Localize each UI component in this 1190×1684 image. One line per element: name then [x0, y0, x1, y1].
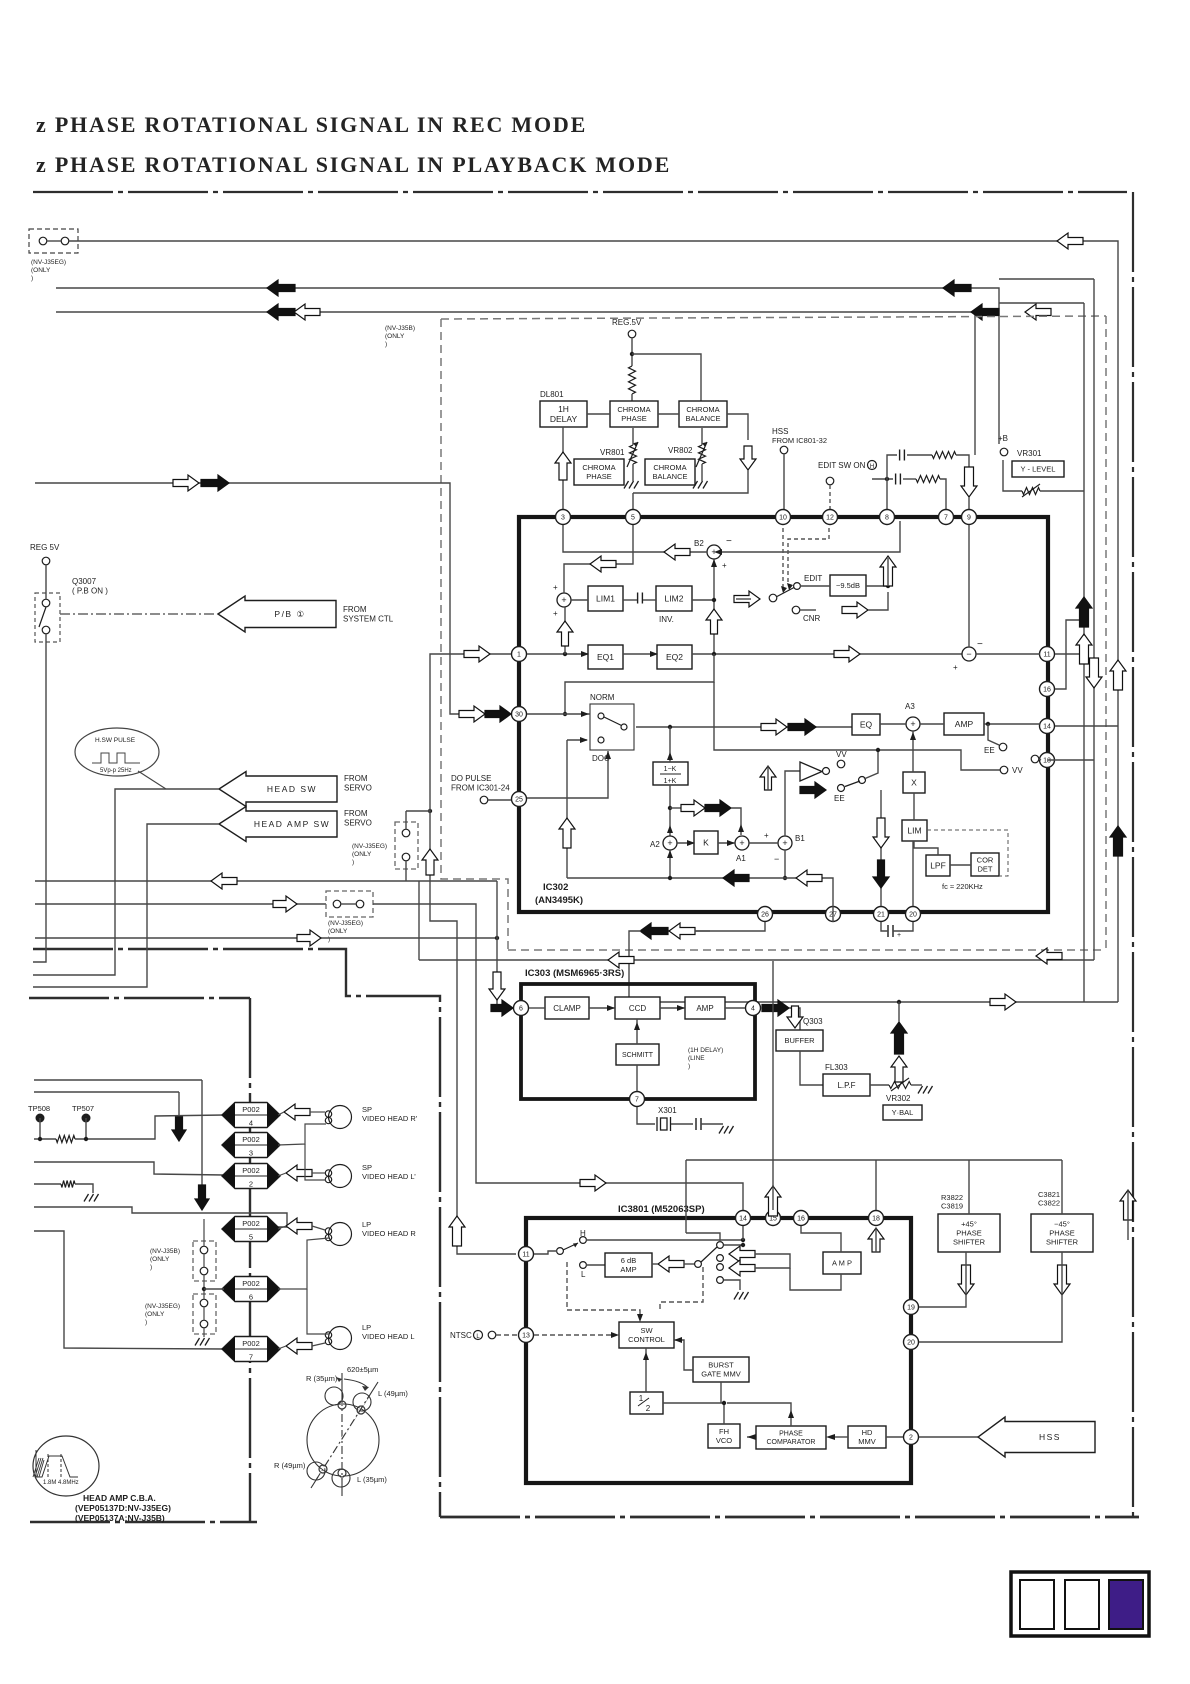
svg-text:PHASE: PHASE: [586, 472, 611, 481]
legend square 2: [1065, 1580, 1099, 1629]
stub y1184 left w resistor: [34, 1183, 61, 1185]
svg-text:( P.B ON ): ( P.B ON ): [72, 587, 108, 596]
open arrow down from +45: [958, 1265, 974, 1295]
svg-text:CONTROL: CONTROL: [628, 1335, 665, 1344]
wire between contacts: [47, 240, 61, 242]
svg-text:CHROMA: CHROMA: [653, 463, 686, 472]
wire amp3801 up to pin16: [801, 1226, 841, 1252]
svg-text:TP508: TP508: [28, 1104, 50, 1113]
svg-text:L (49µm): L (49µm): [378, 1389, 408, 1398]
open arrow up at VR302: [891, 1056, 907, 1082]
svg-text:12: 12: [826, 515, 834, 522]
open arrow left y960: [608, 952, 634, 968]
switch contact: [557, 1248, 564, 1255]
svg-text:2: 2: [909, 1435, 913, 1442]
svg-text:+: +: [553, 609, 558, 618]
svg-text:PHASE: PHASE: [621, 414, 646, 423]
svg-text:13: 13: [522, 1333, 530, 1340]
wire EQ2-out down to pin30 row: [565, 654, 714, 714]
svg-text:1−K: 1−K: [664, 766, 677, 773]
wire cap-res loop2: [903, 478, 916, 480]
capacitor at X301: [696, 1118, 701, 1130]
junction: [876, 748, 880, 752]
block -9.5dB: [830, 575, 866, 596]
svg-text:1H: 1H: [558, 404, 569, 414]
wire CNR arrow: [800, 609, 816, 611]
capacitor at pin20 bottom: [888, 925, 893, 937]
legend square 3 (filled purple): [1109, 1580, 1143, 1629]
junction loop: [885, 477, 889, 481]
svg-text:(ONLY: (ONLY: [31, 267, 51, 274]
wire after inline connector: [341, 903, 356, 905]
svg-text:DL801: DL801: [540, 390, 564, 399]
dashed region bottom: [508, 949, 1106, 951]
pin 2: [904, 1430, 919, 1445]
wire P002-6 left: [204, 1288, 224, 1290]
wire DL801-chromaphase: [587, 413, 610, 415]
svg-text:14: 14: [739, 1216, 747, 1223]
svg-text:BURST: BURST: [708, 1361, 734, 1370]
long wire y881: [35, 880, 497, 882]
wire top line 3: [56, 312, 975, 455]
svg-text:BALANCE: BALANCE: [652, 472, 687, 481]
svg-text:K: K: [703, 838, 709, 848]
+B contact: [1000, 448, 1008, 456]
wire amp out: [652, 1263, 658, 1265]
svg-text:SW: SW: [640, 1326, 653, 1335]
NV-J35EG inline dashed box: [326, 891, 373, 917]
wire burst gate down to node: [720, 1382, 722, 1403]
svg-text:−9.5dB: −9.5dB: [836, 581, 860, 590]
wire norm junction to fraction: [669, 727, 671, 762]
pin 13: [1040, 753, 1055, 768]
ground VR302: [918, 1086, 933, 1094]
signal arrow P/B from system ctl: [218, 596, 336, 632]
wire x773 vertical from y960: [772, 961, 774, 1186]
svg-text:): ): [688, 1063, 690, 1070]
NV-J35EG ONLY dashed box left col 2: [193, 1294, 216, 1334]
long wire left y1092: [34, 1091, 179, 1093]
wire arrow to pin9: [968, 497, 970, 509]
crystal X301: [657, 1117, 671, 1131]
wire to pin13: [1039, 759, 1041, 760]
NTSC circle L: [474, 1331, 483, 1340]
wire pin26 line corner down x629: [629, 931, 641, 1002]
svg-text:620±5µm: 620±5µm: [347, 1365, 378, 1374]
head amp region border right (dash-dot): [249, 998, 251, 1522]
wire right bundle connector y1002: [629, 1001, 1118, 1003]
summing node B2: [707, 545, 721, 559]
svg-text:P002: P002: [242, 1135, 260, 1144]
feedback RC loop upper: [887, 455, 897, 471]
svg-text:EE: EE: [834, 794, 845, 803]
wire selector bottom to ground: [724, 1280, 740, 1290]
EDIT SW contact: [826, 477, 834, 485]
open arrow right from CNR: [842, 602, 868, 618]
open arrow right y904: [273, 896, 297, 912]
open arrow left y881: [211, 873, 237, 889]
dashed wire EDIT SW to pin12: [829, 485, 831, 509]
open arrow up far right lower: [1120, 1190, 1136, 1220]
summing node input: [557, 593, 571, 607]
wire buffer down to LPF: [800, 1051, 823, 1085]
wire loop2 right down to pin7: [940, 479, 946, 509]
svg-text:NTSC: NTSC: [450, 1331, 472, 1340]
svg-text:8: 8: [885, 515, 889, 522]
label box Y-BAL: [883, 1105, 922, 1120]
svg-text:SERVO: SERVO: [344, 784, 372, 793]
svg-text:EDIT SW ON: EDIT SW ON: [818, 461, 866, 470]
wire B2 right to pin7 col: [721, 521, 900, 552]
svg-text:A3: A3: [905, 702, 915, 711]
black arrow right above K: [705, 800, 731, 816]
H.SW PULSE balloon: [75, 728, 159, 776]
block 6dB AMP: [605, 1253, 652, 1277]
wire X-LIM: [913, 793, 915, 820]
svg-text:FROM: FROM: [344, 809, 368, 818]
pin 26: [758, 907, 773, 922]
black arrow down x202: [195, 1185, 209, 1210]
wire cap-res loop1: [907, 454, 932, 456]
block COR DET: [971, 853, 999, 876]
block -45deg phase shifter: [1031, 1214, 1093, 1252]
black arrow down x179: [172, 1116, 186, 1141]
pin 16: [794, 1211, 809, 1226]
svg-text:SP: SP: [362, 1163, 372, 1172]
wire pin21 col up: [880, 790, 882, 906]
wire AMP to pin14: [984, 723, 1040, 725]
resistor loop2: [916, 476, 940, 483]
EE contact right side: [999, 743, 1007, 751]
pin 16: [1040, 682, 1055, 697]
wire x686 join selector row: [686, 1233, 720, 1240]
black arrow down to pin21: [873, 860, 889, 888]
wire top line 1: [69, 241, 1118, 1002]
connector (NV-J35EG only) dashed box top-left: [29, 229, 78, 253]
NV-J35EG dashed box mid: [395, 822, 418, 869]
svg-text:18: 18: [872, 1216, 880, 1223]
open arrow up to LIM2 line: [706, 609, 722, 634]
resistor loop1: [932, 452, 956, 459]
svg-text:14: 14: [1043, 724, 1051, 731]
wire EQ1-EQ2: [623, 653, 657, 655]
VR801 variable resistor: [630, 445, 637, 464]
svg-text:Y - LEVEL: Y - LEVEL: [1021, 465, 1056, 474]
svg-text:COMPARATOR: COMPARATOR: [766, 1439, 815, 1446]
block CCD: [615, 997, 660, 1019]
svg-text:SP: SP: [362, 1105, 372, 1114]
VR302 variable resistor: [889, 1082, 911, 1089]
black arrow up on v3: [1110, 826, 1126, 856]
svg-text:SCHMITT: SCHMITT: [622, 1052, 654, 1059]
svg-text:DELAY: DELAY: [550, 414, 578, 424]
dash-dot wire P/B to Q3007: [60, 613, 218, 615]
svg-text:L: L: [581, 1270, 586, 1279]
black arrow left below IC302: [640, 923, 668, 939]
wire arrow to selector common: [684, 1263, 698, 1265]
wire to chroma phase box: [631, 394, 633, 401]
wire thru nv-j35eg box: [405, 811, 407, 829]
wire sw control down to half divider: [645, 1348, 647, 1392]
wire pin20 up to LIM: [912, 841, 914, 906]
arrowhead into B2 from right: [714, 549, 722, 555]
open arrow left above sum: [590, 556, 616, 572]
svg-text:VR802: VR802: [668, 446, 693, 455]
block K: [694, 831, 718, 854]
svg-text:16: 16: [1043, 687, 1051, 694]
wire +45 shifter up: [968, 1160, 970, 1214]
open arrow up above pin15: [765, 1186, 781, 1216]
wire head amp sw to vertical x152: [33, 824, 219, 987]
wire DOC contact to left col: [567, 739, 587, 741]
open arrow left on line 3 right2: [1025, 304, 1051, 320]
svg-text:VR302: VR302: [886, 1094, 911, 1103]
svg-text:5: 5: [631, 515, 635, 522]
contact: [356, 900, 364, 908]
open arrow right y938: [297, 930, 321, 946]
pin 25: [512, 792, 527, 807]
NV-J35B ONLY dashed box left col: [193, 1241, 216, 1281]
wire A3-AMP: [920, 723, 944, 725]
junction: [886, 584, 890, 588]
open arrow right on EQ output line: [834, 646, 860, 662]
svg-text:L.P.F: L.P.F: [837, 1081, 855, 1090]
contact: [61, 237, 69, 245]
open arrow left at B2: [664, 544, 690, 560]
svg-text:25: 25: [515, 797, 523, 804]
junction x497 y938: [495, 936, 499, 940]
pin 30: [512, 707, 527, 722]
wire x419 from y881 down: [418, 881, 420, 960]
svg-text:+45°: +45°: [961, 1220, 977, 1229]
svg-text:): ): [31, 275, 33, 282]
svg-text:P002: P002: [242, 1166, 260, 1175]
hatch area: [33, 1458, 44, 1477]
contact: [39, 237, 47, 245]
svg-text:+: +: [897, 932, 901, 939]
svg-text:(ONLY: (ONLY: [352, 851, 372, 858]
svg-text:H.SW PULSE: H.SW PULSE: [95, 737, 136, 744]
svg-text:(VEP05137D:NV-J35EG): (VEP05137D:NV-J35EG): [75, 1503, 171, 1513]
junction: [668, 725, 672, 729]
ground VR802: [693, 481, 708, 489]
svg-text:+: +: [910, 719, 915, 729]
open arrow left P002-7: [286, 1338, 312, 1354]
wire pin18 inner stub: [875, 1228, 877, 1252]
svg-text:VV: VV: [1012, 766, 1023, 775]
svg-text:MMV: MMV: [858, 1437, 876, 1446]
svg-text:CCD: CCD: [629, 1004, 647, 1013]
wire y904 to x476 down to y1183: [373, 904, 743, 1210]
svg-text:): ): [328, 936, 330, 943]
block FH VCO: [708, 1424, 740, 1448]
svg-text:(VEP05137A:NV-J35B): (VEP05137A:NV-J35B): [75, 1513, 165, 1523]
open arrow right into pin1: [464, 646, 490, 662]
open arrow left lower: [796, 870, 822, 886]
ground left y1184: [84, 1194, 99, 1202]
svg-text:P002: P002: [242, 1279, 260, 1288]
contact before pin13: [1031, 755, 1039, 763]
wire right top h to v2: [999, 278, 1094, 280]
open arrow down into pin9 region: [961, 467, 977, 497]
open arrow up into DL801: [555, 452, 571, 480]
open arrow into selector 2: [729, 1246, 755, 1262]
svg-text:1+K: 1+K: [664, 778, 677, 785]
outer border top (dash-dot): [33, 191, 1127, 193]
open arrow down on v2: [1086, 658, 1102, 688]
block BURST GATE MMV: [693, 1357, 749, 1382]
connector P002-4: [222, 1103, 280, 1128]
svg-text:−: −: [774, 854, 779, 864]
black arrow right at EE switch: [800, 782, 826, 798]
block PHASE COMPARATOR: [756, 1426, 826, 1449]
DO PULSE contact: [480, 796, 488, 804]
wire switch down to left edge: [33, 634, 46, 962]
wire -45 shifter up: [1061, 1160, 1063, 1214]
ground selector: [734, 1292, 749, 1300]
wire cap to ground: [701, 1123, 723, 1125]
svg-text:IC3801 (M52063SP): IC3801 (M52063SP): [618, 1204, 705, 1215]
open arrow left below IC302: [669, 923, 695, 939]
pin 14: [736, 1211, 751, 1226]
svg-text:FH: FH: [719, 1427, 729, 1436]
svg-text:19: 19: [907, 1305, 915, 1312]
open arrow down from chroma balance: [740, 446, 756, 470]
svg-text:FL303: FL303: [825, 1063, 848, 1072]
svg-text:1: 1: [517, 652, 521, 659]
open arrow into selector 3: [729, 1260, 755, 1276]
summing node A3: [906, 717, 920, 731]
svg-text:SYSTEM CTL: SYSTEM CTL: [343, 615, 394, 624]
svg-text:B1: B1: [795, 834, 805, 843]
balloon pointer line: [138, 771, 166, 789]
svg-text:+: +: [739, 838, 744, 848]
block SCHMITT: [616, 1044, 659, 1065]
block EQ2: [657, 645, 692, 669]
wires inside IC303 row: [529, 1007, 545, 1009]
VV contact right side: [1000, 766, 1008, 774]
svg-text:DO PULSE: DO PULSE: [451, 774, 491, 783]
wire pin3 down to B2 line: [563, 525, 707, 552]
pin 11: [1040, 647, 1055, 662]
dashed region right vertical: [1105, 316, 1107, 950]
black arrow left lower: [723, 870, 749, 886]
HSS contact: [780, 446, 788, 454]
open arrow right into EDIT switch: [734, 591, 760, 607]
block LPF: [926, 855, 950, 876]
wire x202 down: [201, 1080, 203, 1191]
arrowheads onto switch arm: [781, 586, 787, 593]
svg-text:HSS: HSS: [772, 427, 788, 436]
open arrow up on v3: [1110, 660, 1126, 690]
pin 5: [626, 510, 641, 525]
long wire left y1207 into P002-5: [34, 1207, 287, 1227]
dashed region box around chroma section: [441, 316, 1106, 319]
junction pin30 row: [563, 712, 567, 716]
connector P002-2: [222, 1164, 280, 1189]
open arrow up at buffer: [760, 766, 776, 790]
wire left leg of y1160 down: [685, 1160, 687, 1233]
wire loop1 right down: [956, 455, 969, 467]
wire down to y493 bus: [633, 470, 748, 493]
wire pin4 out to buffer: [789, 1008, 800, 1030]
feedback line y878: [567, 878, 833, 906]
wire branch arrows to A1: [670, 807, 681, 809]
svg-text:fc ≈ 220KHz: fc ≈ 220KHz: [942, 882, 983, 891]
triangle buffer amp: [800, 762, 822, 781]
svg-text:PHASE: PHASE: [1049, 1229, 1074, 1238]
switch EE mid: [838, 785, 845, 792]
wire EQ2 to minus node: [692, 653, 962, 655]
wire burst gate to sw control: [674, 1340, 693, 1370]
contact: [200, 1246, 208, 1254]
contact: [402, 829, 410, 837]
wire down to EE: [988, 724, 999, 745]
svg-text:): ): [145, 1319, 147, 1326]
pin 27: [826, 907, 841, 922]
svg-text:A1: A1: [736, 854, 746, 863]
label box Y-LEVEL: [1012, 461, 1064, 477]
dashed wire from selector down: [660, 1267, 703, 1310]
wire fraction down to A2: [669, 785, 671, 836]
pin 8: [880, 510, 895, 525]
pin 7: [630, 1092, 645, 1107]
svg-text:(NV-J35B): (NV-J35B): [385, 325, 415, 332]
svg-text:2: 2: [249, 1180, 253, 1189]
dashed wire from H/L switch down to SW CONTROL: [567, 1262, 640, 1317]
svg-text:15: 15: [769, 1216, 777, 1223]
video head coil LP R: [325, 1223, 351, 1246]
black arrow left on line 3: [267, 304, 295, 320]
wire arrow up to pin8 col: [887, 558, 889, 586]
wire y303 into v1: [999, 302, 1084, 304]
pin30 input wire from left: [35, 483, 459, 714]
black arrow right from pin4: [762, 1000, 789, 1016]
svg-text:GATE MMV: GATE MMV: [701, 1370, 740, 1379]
connector P002-7: [222, 1337, 280, 1362]
wire chroma balance out right down: [727, 414, 748, 440]
long wire left y1080: [34, 1079, 202, 1081]
wire right bundle v2: [1093, 279, 1095, 960]
pin 4: [746, 1001, 761, 1016]
svg-text:16: 16: [797, 1216, 805, 1223]
contact bottom: [42, 626, 50, 634]
svg-text:HD: HD: [862, 1428, 873, 1437]
svg-text:LIM: LIM: [907, 826, 921, 836]
wire B1 up to buffer: [785, 771, 800, 836]
wire CCD down to SCHMITT: [636, 1019, 638, 1044]
IC IC302 (AN3495K) outline: [519, 517, 1048, 912]
svg-text:P002: P002: [242, 1339, 260, 1348]
svg-text:−: −: [977, 639, 983, 650]
dashed detector feedback box: [927, 830, 1008, 876]
wire pin15 stub: [772, 1186, 774, 1210]
video head coil SP L: [325, 1165, 351, 1188]
pin 21: [874, 907, 889, 922]
svg-text:6 dB: 6 dB: [621, 1256, 636, 1265]
wire chromaphase-balance: [658, 413, 679, 415]
black arrow left on line 3 right: [971, 304, 999, 320]
open arrow down at Q303: [787, 1006, 803, 1028]
svg-text:(NV-J35EG): (NV-J35EG): [145, 1303, 180, 1310]
svg-text:(ONLY: (ONLY: [385, 333, 405, 340]
Q3007 dashed box: [35, 593, 60, 642]
wire x179 down: [178, 1092, 180, 1121]
dashed wires pins 10-12 into switch area: [782, 528, 784, 588]
wire +45 down to pin19: [919, 1252, 966, 1307]
svg-text:5: 5: [249, 1233, 253, 1242]
region border left (dash-dot): [33, 949, 440, 1517]
